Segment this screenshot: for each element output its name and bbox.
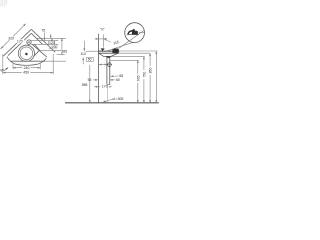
detail circle X <box>125 23 145 43</box>
dim 585 <box>89 65 91 103</box>
dim stub above 120 <box>50 34 52 38</box>
svg-text:60: 60 <box>116 78 120 82</box>
svg-text:240: 240 <box>24 66 30 70</box>
svg-text:230: 230 <box>52 45 58 49</box>
dim 75 vertical above tap area <box>43 32 45 40</box>
svg-text:68: 68 <box>119 74 123 78</box>
ext line pipe axis to floor <box>107 85 109 103</box>
dim 320 line <box>1 24 26 49</box>
svg-text:W: W <box>0 69 4 73</box>
svg-text:75: 75 <box>41 28 45 32</box>
drain bulge <box>106 56 111 58</box>
basin rim lines <box>98 50 119 52</box>
basin inner rear rim left <box>8 33 31 55</box>
tap hole reference lines to right <box>31 38 66 54</box>
svg-text:695: 695 <box>136 75 140 81</box>
right edge dim line <box>155 51 157 103</box>
dim 240 <box>13 64 40 70</box>
basin outer front arc <box>7 57 46 66</box>
dim 113 <box>83 41 85 51</box>
svg-text:170: 170 <box>102 85 108 89</box>
faucet baseline <box>127 34 139 36</box>
svg-text:"X": "X" <box>100 28 106 32</box>
dim 385 <box>61 38 63 54</box>
tap axis line <box>103 35 105 48</box>
dark tap block right end of rim <box>112 49 118 54</box>
basin right diagonal <box>32 44 47 57</box>
tap hole <box>27 40 31 44</box>
svg-text:≥ l = 305: ≥ l = 305 <box>112 97 123 101</box>
steep detail line <box>119 30 145 48</box>
boxed 50 <box>86 57 93 61</box>
rim ref line extends left of wall <box>86 50 99 52</box>
basin underside <box>99 53 118 56</box>
faucet in detail <box>132 29 138 35</box>
drain dot <box>25 53 28 56</box>
wall edge top-right <box>31 29 55 52</box>
water level triangle at rim left <box>101 48 105 51</box>
svg-text:170: 170 <box>17 40 23 44</box>
svg-text:385: 385 <box>61 50 67 54</box>
wall edge top-left <box>3 29 55 65</box>
leader to detail circle <box>106 42 133 51</box>
svg-text:450: 450 <box>23 71 29 75</box>
bowl outer <box>18 45 34 61</box>
dim 170 bottom <box>94 86 98 88</box>
mounting hole symbol <box>108 63 112 67</box>
svg-text:320: 320 <box>8 37 14 41</box>
svg-text:113: 113 <box>80 52 86 56</box>
dim 120 (boxed) <box>51 38 53 48</box>
dim wall to hole <box>99 64 107 66</box>
dim 450 <box>3 54 53 74</box>
label 320 <box>7 36 16 40</box>
svg-text:50: 50 <box>88 58 92 62</box>
floor line <box>65 102 159 104</box>
drain pipe <box>106 56 108 84</box>
svg-text:850: 850 <box>149 68 153 74</box>
dim 695 <box>137 60 139 103</box>
svg-text:585: 585 <box>82 83 88 87</box>
watermark bars top-left <box>1 0 7 7</box>
ref line from right point <box>40 50 66 52</box>
right dim chain ref lines <box>111 57 145 61</box>
label 170 <box>15 39 24 43</box>
basin inner rear rim right <box>31 33 42 44</box>
dim 115 <box>95 38 107 40</box>
dim 230 <box>52 45 58 48</box>
front chord thin extension <box>45 60 66 62</box>
up arrow under rim <box>82 57 84 64</box>
bowl inner <box>20 47 33 60</box>
wall line <box>97 34 99 103</box>
basin front straight chord <box>11 60 45 62</box>
dim 850 <box>149 53 151 103</box>
svg-text:750: 750 <box>142 72 146 78</box>
dim 750 <box>143 57 145 103</box>
basin right point edges <box>34 44 40 56</box>
